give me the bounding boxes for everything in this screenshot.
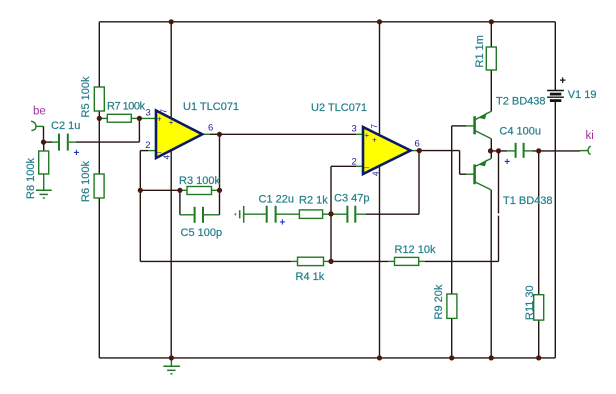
junction U1 output node xyxy=(217,132,222,137)
junction ground rail U1 xyxy=(169,355,174,360)
wire C2 row xyxy=(44,141,53,143)
capacitor C1 xyxy=(259,194,294,229)
wire T1 emitter to output node xyxy=(490,151,492,159)
resistor R1 xyxy=(474,35,496,70)
wire R11 bottom to ground rail xyxy=(538,320,540,358)
svg-text:+: + xyxy=(372,136,377,145)
junction top rail U2 xyxy=(377,19,382,24)
svg-text:C2 1u: C2 1u xyxy=(51,120,80,132)
svg-text:7: 7 xyxy=(160,109,169,114)
wire R12 riser to output node xyxy=(498,216,500,262)
svg-text:R8 100k: R8 100k xyxy=(25,158,37,199)
svg-text:R3 100k: R3 100k xyxy=(179,175,220,187)
node be input drop wire xyxy=(36,125,44,127)
wire C3 right xyxy=(356,213,366,215)
wire R4 to node X2 xyxy=(324,260,331,262)
wire U2 pin2 column down to node X xyxy=(330,166,332,214)
junction U2 output node xyxy=(417,148,422,153)
junction input node xyxy=(41,140,46,145)
wire C3 riser to U2 output node xyxy=(418,151,420,215)
junction pin3 node xyxy=(137,116,142,121)
wire C1 to R2 xyxy=(276,213,299,215)
wire bottom ground rail xyxy=(99,357,555,359)
wire R8 top lead xyxy=(43,142,45,151)
svg-text:C5 100p: C5 100p xyxy=(181,227,223,239)
svg-text:+: + xyxy=(365,131,370,140)
wire C5 right side xyxy=(204,214,220,216)
wire T2 collector to output node xyxy=(490,139,492,151)
wire node X2 riser to node X xyxy=(330,214,332,262)
svg-text:T1 BD438: T1 BD438 xyxy=(503,195,553,207)
svg-text:R7 100k: R7 100k xyxy=(107,101,146,113)
wire R1 bottom to T2 emitter xyxy=(490,70,492,111)
wire feedback column pin2 down to R4 row xyxy=(139,151,141,262)
junction R12 feedback node xyxy=(496,148,501,153)
resistor R8 xyxy=(25,151,49,199)
resistor R3 xyxy=(179,175,220,195)
junction R3 left node xyxy=(138,188,143,193)
wire pin3 node to U1 xyxy=(139,117,156,119)
svg-text:+: + xyxy=(157,114,162,123)
svg-text:+: + xyxy=(280,218,286,229)
svg-text:6: 6 xyxy=(415,139,420,150)
svg-text:R6 100k: R6 100k xyxy=(80,161,92,202)
svg-text:4: 4 xyxy=(163,155,172,160)
transistor T1 BD438 xyxy=(475,158,553,207)
wire output to ki jack xyxy=(580,150,588,152)
ground at bottom rail xyxy=(163,358,180,374)
wire R2 to node X xyxy=(323,213,331,215)
svg-text:+: + xyxy=(169,118,174,127)
svg-text:3: 3 xyxy=(146,107,151,118)
transistor T2 BD438 xyxy=(475,96,546,139)
wire T1 collector column to ground rail xyxy=(490,190,492,358)
wire node X2 to R12 xyxy=(331,260,388,262)
wire T2 base column down to R9 xyxy=(451,126,453,294)
wire U2 pin2 row xyxy=(356,165,363,167)
svg-text:R5 100k: R5 100k xyxy=(80,76,92,117)
junction C5 tap node xyxy=(177,188,182,193)
wire U1 output column down to C5 row xyxy=(219,134,221,215)
junction R3 right node xyxy=(217,188,222,193)
svg-text:6: 6 xyxy=(208,123,213,134)
wire R6 column from divider node xyxy=(98,118,100,174)
resistor R2 xyxy=(299,195,328,219)
ground at C1 (rotated) xyxy=(235,206,243,223)
junction ground rail U2 xyxy=(377,355,382,360)
wire U1 V- pin4 column to ground rail xyxy=(170,150,172,358)
wire R7 leads pin3 row xyxy=(99,117,107,119)
svg-text:4: 4 xyxy=(371,171,380,176)
battery V1 19 xyxy=(547,75,596,101)
wire R3 right lead xyxy=(212,189,218,191)
capacitor C4 xyxy=(499,126,541,169)
wire U2 V- pin4 column to ground rail xyxy=(379,166,381,358)
resistor R5 xyxy=(80,76,104,117)
wire R5 bottom to divider node xyxy=(98,111,100,118)
capacitor C5 xyxy=(181,207,223,239)
svg-text:+: + xyxy=(504,157,510,168)
wire U1 pin2 row xyxy=(148,150,156,152)
wire T2 base row xyxy=(466,125,474,127)
svg-text:R12 10k: R12 10k xyxy=(395,244,436,256)
node ki output jack xyxy=(586,130,594,155)
wire R1 column from top rail xyxy=(490,22,492,47)
svg-text:C1 22u: C1 22u xyxy=(259,194,294,206)
junction top rail R1 xyxy=(489,19,494,24)
junction T collector node xyxy=(488,148,493,153)
wire U2 output drop to T1 base xyxy=(459,151,461,175)
resistor R4 xyxy=(296,257,325,283)
junction node X xyxy=(328,211,333,216)
svg-text:3: 3 xyxy=(352,124,357,135)
svg-text:ki: ki xyxy=(586,130,594,142)
wire output row through C4 xyxy=(491,150,508,152)
junction ground rail T1 xyxy=(489,355,494,360)
svg-text:be: be xyxy=(33,106,46,118)
node be input jack xyxy=(31,106,46,131)
wire R11 column top xyxy=(538,151,540,295)
op-amp U2 TLC071 xyxy=(311,102,420,176)
svg-text:+: + xyxy=(74,148,80,159)
junction top rail U1 xyxy=(169,19,174,24)
junction ground rail R11 xyxy=(536,355,541,360)
junction node X2 xyxy=(328,259,333,264)
wire R5 column from top rail xyxy=(98,22,100,87)
svg-text:U1 TLC071: U1 TLC071 xyxy=(183,101,239,113)
svg-text:T2 BD438: T2 BD438 xyxy=(496,96,546,108)
wire top supply rail xyxy=(99,21,555,23)
wire R12 right lead xyxy=(419,260,425,262)
wire R3 row left xyxy=(140,189,181,191)
svg-text:–: – xyxy=(365,163,370,172)
wire C2 row riser to pin3 node xyxy=(138,118,140,142)
svg-text:R1 1m: R1 1m xyxy=(474,35,486,67)
wire node X to C3 xyxy=(331,213,347,215)
wire C5 left drop xyxy=(179,190,181,215)
resistor R7 xyxy=(107,101,146,123)
junction C4 right node xyxy=(536,148,541,153)
svg-text:C4 100u: C4 100u xyxy=(499,126,541,138)
resistor R11 xyxy=(524,285,544,320)
svg-text:R4 1k: R4 1k xyxy=(296,271,325,283)
svg-text:2: 2 xyxy=(145,140,150,151)
svg-text:R9 20k: R9 20k xyxy=(433,284,445,319)
wire R4 row left xyxy=(140,260,291,262)
capacitor C2 xyxy=(51,120,80,159)
capacitor C3 xyxy=(334,193,369,223)
svg-text:7: 7 xyxy=(370,124,379,129)
wire C1 ground to C1 xyxy=(245,213,266,215)
wire R6 bottom to ground rail xyxy=(98,198,100,358)
wire U2 V+ pin7 column xyxy=(379,22,381,135)
wire R9 bottom to ground rail xyxy=(451,318,453,358)
junction ground rail R9 xyxy=(449,355,454,360)
svg-text:–: – xyxy=(157,147,162,156)
wire U1 V+ pin7 column xyxy=(170,22,172,119)
svg-text:C3 47p: C3 47p xyxy=(334,193,369,205)
wire U2 output row xyxy=(411,150,417,152)
wire V1 column bottom xyxy=(554,101,556,358)
svg-text:2: 2 xyxy=(352,156,357,167)
resistor R9 xyxy=(433,284,457,319)
resistor R6 xyxy=(80,161,104,202)
junction divider node xyxy=(97,116,102,121)
svg-text:R11 30: R11 30 xyxy=(524,285,536,320)
svg-text:V1 19: V1 19 xyxy=(568,89,597,101)
svg-text:U2 TLC071: U2 TLC071 xyxy=(311,102,367,114)
ground under R8 xyxy=(36,174,52,198)
svg-text:+: + xyxy=(560,75,566,87)
svg-text:R2 1k: R2 1k xyxy=(299,195,328,207)
op-amp U1 TLC071 xyxy=(145,101,239,160)
wire V1 column top xyxy=(554,22,556,91)
resistor R12 xyxy=(395,244,436,265)
wire U1 output row to U2 pin3 xyxy=(202,133,210,135)
